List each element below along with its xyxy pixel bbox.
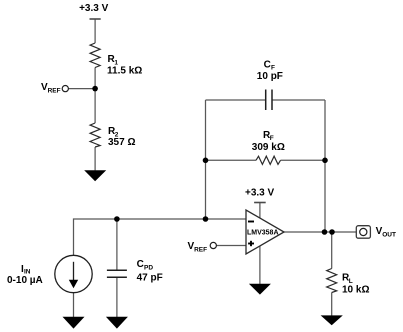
current source IIN	[55, 255, 92, 292]
node VREF (op-amp non-inverting input)	[188, 241, 217, 254]
wire: RL branch vertical	[331, 232, 333, 316]
capacitor CPD	[107, 270, 127, 277]
label IIN 0-10 uA	[7, 264, 43, 286]
node VREF (divider tap)	[41, 82, 68, 95]
terminal VOUT	[356, 226, 396, 239]
svg-text:309 kΩ: 309 kΩ	[252, 142, 285, 153]
wire: VREF terminal to op-amp non-inverting input	[217, 245, 247, 247]
label CPD	[137, 259, 163, 284]
wire: feedback right branch (CF/RF loop right side)	[324, 100, 326, 232]
wire: RF branch horizontal	[206, 159, 326, 161]
wire: divider vertical from +3.3V bar through R1, VREF node, R2 to ground	[94, 19, 96, 170]
junction: feedback tap on input net	[203, 216, 209, 222]
junction: feedback right on RF wire	[322, 158, 328, 164]
svg-text:+3.3 V: +3.3 V	[245, 188, 275, 199]
wire: op-amp ground drop	[259, 246, 261, 284]
wire: input net from current source top, past CPD and feedback taps, to op-amp inverting input	[74, 219, 247, 256]
junction: feedback tap on output	[322, 229, 328, 235]
capacitor CF	[266, 90, 272, 111]
svg-text:11.5 kΩ: 11.5 kΩ	[107, 65, 142, 76]
label R2	[108, 126, 135, 148]
wire: current source bottom to ground	[73, 293, 75, 317]
power rail +3.3 V bar (op-amp)	[254, 202, 266, 204]
junction: RL tap on output	[329, 229, 335, 235]
label RL	[342, 273, 369, 296]
svg-text:47 pF: 47 pF	[137, 273, 163, 284]
wire: CPD vertical branch	[116, 219, 118, 317]
svg-text:LMV358A: LMV358A	[247, 229, 279, 236]
ground (below R2)	[84, 170, 106, 181]
wire: op-amp output to VOUT terminal	[284, 231, 356, 233]
wire: op-amp V+ supply drop	[259, 203, 261, 219]
svg-text:10 pF: 10 pF	[257, 71, 283, 82]
wire: CF top branch horizontal	[206, 99, 326, 101]
ground (below RL)	[321, 315, 343, 325]
ground (below current source)	[63, 317, 85, 329]
op-amp U1 LMV358A	[246, 210, 284, 254]
svg-text:OUT: OUT	[382, 231, 396, 238]
junction: CPD tap on input net	[114, 216, 120, 222]
junction: VREF tap on divider	[92, 86, 98, 92]
ground (below op-amp)	[249, 284, 271, 295]
svg-text:0-10 µA: 0-10 µA	[7, 275, 43, 286]
svg-text:10 kΩ: 10 kΩ	[342, 285, 369, 296]
resistor RL	[327, 269, 337, 293]
junction: feedback left on RF wire	[203, 158, 209, 164]
svg-text:REF: REF	[194, 247, 207, 254]
resistor R1	[90, 43, 100, 68]
resistor R2	[90, 123, 100, 147]
ground (below CPD)	[106, 317, 128, 329]
label R1	[107, 54, 142, 76]
svg-text:REF: REF	[48, 88, 61, 95]
power rail +3.3 V bar (divider)	[90, 18, 101, 20]
label RF	[252, 130, 285, 153]
svg-text:357 Ω: 357 Ω	[108, 137, 135, 148]
svg-text:C: C	[137, 259, 144, 270]
svg-text:C: C	[264, 59, 271, 70]
svg-text:+3.3 V: +3.3 V	[79, 3, 109, 14]
svg-text:PD: PD	[144, 265, 153, 272]
resistor RF	[256, 156, 281, 164]
label CF	[257, 59, 283, 82]
wire: feedback left branch (CF/RF loop left side)	[205, 100, 207, 219]
wire: VREF terminal to divider node	[69, 88, 96, 90]
